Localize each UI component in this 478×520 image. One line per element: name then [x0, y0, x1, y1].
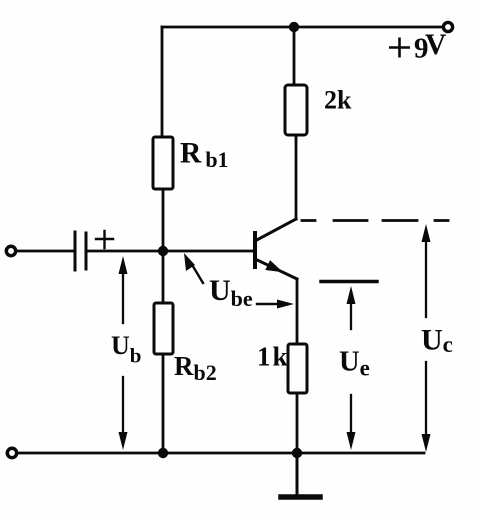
- node Rb2-ground junction: [158, 448, 168, 458]
- ground stem: [296, 453, 299, 495]
- measure Ue lower line with down arrow: [350, 395, 352, 440]
- wire Rb2 bottom to ground rail: [162, 354, 165, 453]
- transistor Q1 emitter lead: [255, 259, 297, 279]
- wire collector upper (rail to 2k): [293, 27, 296, 85]
- svg-text:Ub: Ub: [111, 331, 141, 368]
- wire 1k bottom to ground rail: [296, 393, 299, 453]
- leader Ube to base (diagonal arrow): [191, 263, 203, 283]
- wire base node to transistor base: [163, 250, 254, 253]
- measure Uc lower line with down arrow: [425, 362, 427, 442]
- wire dashed collector level line: [302, 219, 452, 222]
- measure Ue upper line with up arrow: [350, 292, 352, 329]
- svg-text:Rb2: Rb2: [174, 351, 217, 385]
- resistor 1k: [288, 344, 307, 393]
- svg-text:Rb1: Rb1: [180, 138, 229, 173]
- terminal ground-rail left (open circle): [7, 448, 16, 457]
- transistor Q1 base bar: [253, 233, 257, 267]
- terminal +9V (open circle): [443, 22, 452, 31]
- wire Rb1 top (rail to resistor): [161, 27, 164, 137]
- svg-text:Uc: Uc: [421, 324, 453, 358]
- svg-text:Ue: Ue: [339, 347, 370, 381]
- measure Ub upper line with up arrow: [122, 262, 124, 323]
- capacitor C1 plate left: [74, 232, 77, 270]
- svg-text:Ube: Ube: [209, 274, 253, 311]
- capacitor C1 plate right: [85, 233, 88, 269]
- wire input to capacitor: [16, 250, 73, 253]
- resistor 2k: [285, 85, 307, 135]
- svg-text:2k: 2k: [324, 86, 352, 115]
- ground bar: [281, 494, 320, 500]
- label +9V plus sign: [389, 38, 410, 58]
- wire emitter to 1k: [296, 279, 299, 344]
- wire Rb1 bottom to base node: [162, 189, 165, 251]
- leader Ube to emitter (horizontal arrow): [257, 303, 278, 305]
- resistor Rb2: [154, 303, 173, 354]
- measure Uc upper line with up arrow: [425, 230, 427, 317]
- transistor Q1 emitter arrow: [265, 260, 283, 272]
- resistor Rb1: [153, 137, 173, 189]
- measure Ub lower line with down arrow: [122, 377, 124, 440]
- wire capacitor to base node: [88, 250, 163, 253]
- capacitor plus sign: [96, 231, 113, 248]
- wire 2k bottom to collector: [295, 135, 298, 219]
- wire top rail: [162, 26, 443, 29]
- transistor Q1 collector lead: [255, 219, 296, 241]
- wire base node to Rb2: [162, 251, 165, 303]
- svg-text:1k: 1k: [257, 342, 290, 372]
- node base junction: [158, 246, 168, 256]
- node emitter-ground junction: [292, 448, 302, 458]
- terminal input (open circle): [6, 246, 15, 255]
- svg-text:V: V: [425, 29, 446, 61]
- node collector-rail junction: [289, 22, 299, 32]
- measure Ue top bar: [321, 280, 377, 284]
- wire bottom rail: [17, 452, 424, 455]
